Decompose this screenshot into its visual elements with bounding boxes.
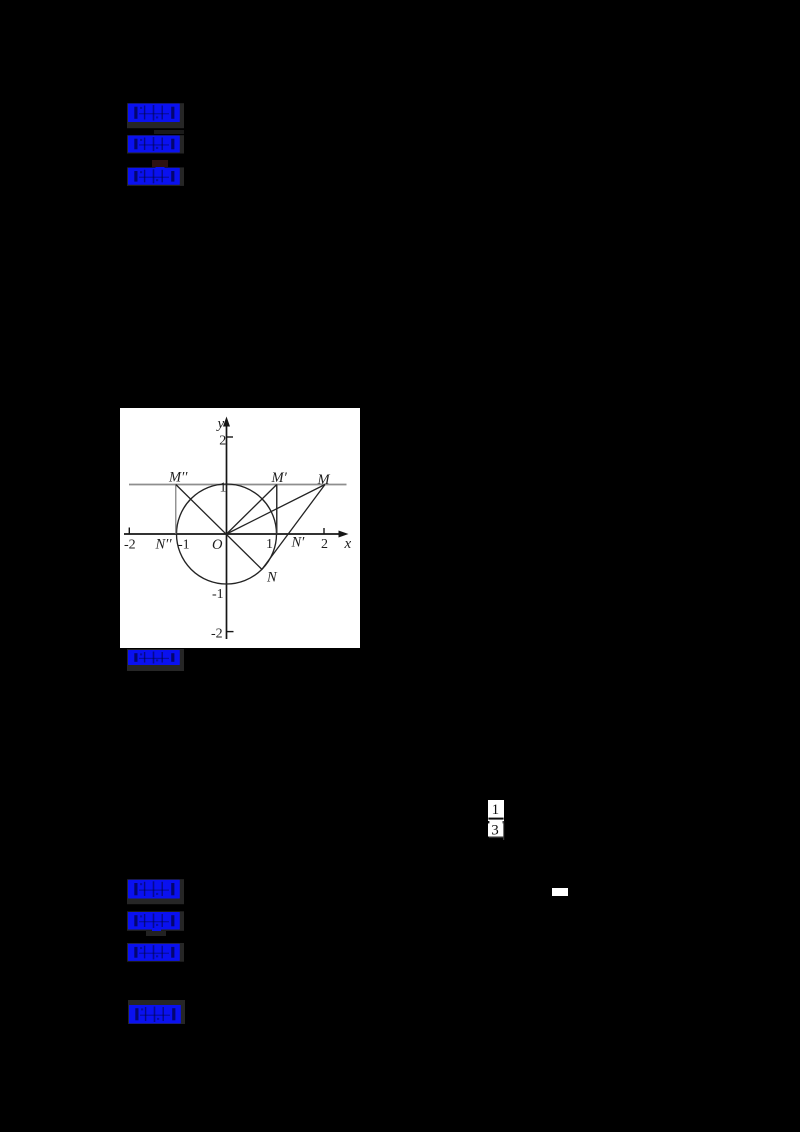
faint grey streak above tag 2 — [154, 130, 184, 134]
tick x=2 — [323, 528, 325, 534]
segment O to M' — [227, 485, 277, 535]
svg-text:-1: -1 — [178, 538, 190, 553]
segment O to M — [227, 485, 326, 535]
svg-text:O: O — [212, 537, 223, 553]
label tag 6 (analysis 2) — [127, 911, 187, 951]
svg-text:y: y — [216, 416, 225, 432]
tick y=-2 — [227, 631, 234, 633]
grey patch under tag 6 descender — [146, 931, 166, 937]
label tag 3 (detail) — [127, 167, 187, 207]
vertical M' to x-axis — [276, 485, 278, 535]
svg-text:1: 1 — [492, 802, 500, 818]
fraction 1/3 — [487, 799, 509, 843]
label tag 4 (tips) — [127, 649, 187, 689]
svg-text:-1: -1 — [212, 587, 224, 602]
dark red spot above tag 3 — [152, 160, 168, 167]
segment M through N' to N — [262, 485, 325, 570]
svg-text:1: 1 — [266, 537, 273, 552]
svg-text:x: x — [344, 536, 352, 552]
label tag 8 (tips 2) — [128, 1000, 188, 1040]
svg-text:-2: -2 — [211, 627, 223, 642]
svg-text:3: 3 — [491, 822, 499, 838]
tangent line y=1 — [129, 484, 347, 486]
svg-text:N′: N′ — [291, 535, 306, 551]
label tag 7 (detail 2) — [127, 943, 187, 983]
tick y=2 — [227, 436, 234, 438]
svg-text:M: M — [317, 472, 331, 488]
vertical M'' to N'' — [175, 485, 177, 535]
svg-text:-2: -2 — [124, 538, 136, 553]
unit circle — [177, 484, 277, 584]
svg-text:2: 2 — [321, 537, 328, 552]
svg-text:N: N — [266, 570, 278, 586]
svg-text:N′′: N′′ — [155, 537, 173, 553]
tick x=-2 — [128, 528, 130, 535]
label tag 2 (analysis) — [127, 135, 187, 175]
svg-text:M′: M′ — [271, 470, 288, 486]
svg-text:M′′: M′′ — [168, 470, 188, 486]
segment M'' through O to N — [176, 485, 262, 570]
x-axis — [124, 533, 340, 535]
white dash — [552, 888, 568, 896]
svg-text:2: 2 — [219, 434, 226, 449]
label tag 5 (answer 2) — [127, 879, 187, 919]
svg-text:1: 1 — [220, 481, 227, 496]
figure: coordinate plane with unit circle — [120, 408, 360, 648]
label tag 1 (answer) — [127, 103, 187, 143]
y-axis — [226, 425, 228, 639]
